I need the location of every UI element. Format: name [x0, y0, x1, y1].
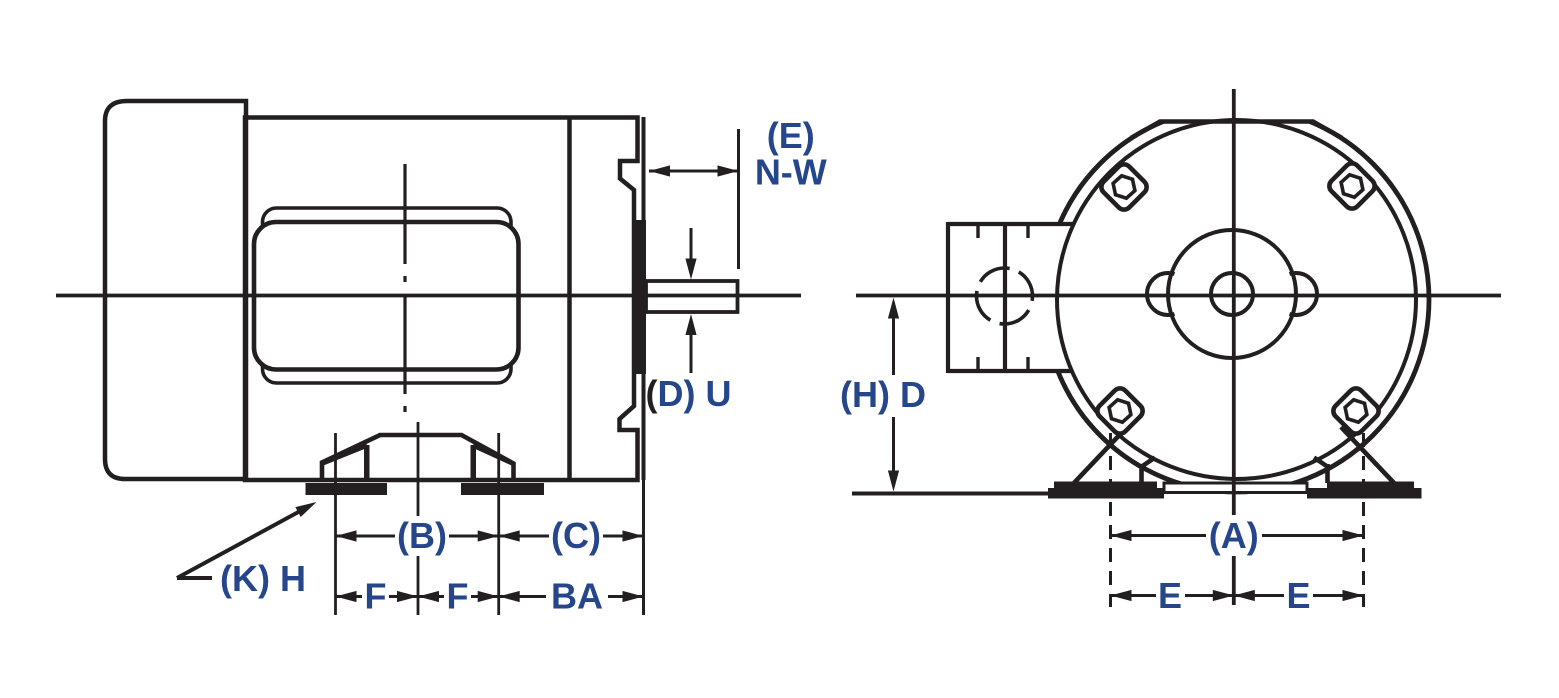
foot slot bar left: [364, 445, 370, 478]
bolt boss top-left: [1098, 161, 1149, 212]
svg-text:(A): (A): [1209, 515, 1259, 556]
dimension (E) N-W: [737, 129, 740, 269]
erase above chord: [1090, 90, 1380, 120]
dimension BA: [499, 595, 644, 598]
svg-text:F: F: [447, 576, 469, 617]
foot inner slant left: [324, 446, 368, 464]
svg-text:BA: BA: [551, 576, 603, 617]
flange gasket bar: [634, 220, 647, 374]
foot bracket trapezoid: [322, 435, 514, 478]
left view horizontal centerline: [56, 294, 801, 298]
bolt boss bottom-right: [1330, 385, 1381, 436]
extension line foot center: [417, 422, 420, 615]
stator back laminations: [263, 208, 512, 383]
svg-text:(H) D: (H) D: [840, 374, 926, 415]
bolt boss top-right: [1326, 160, 1377, 211]
dimension (A): [1111, 534, 1364, 537]
svg-text:(C): (C): [551, 515, 601, 556]
dimension F left: [336, 595, 419, 598]
conduit box fill: [950, 226, 1078, 369]
dimension (C): [499, 535, 644, 538]
foot inner slant right: [473, 446, 513, 464]
left foot black pad: [1048, 482, 1164, 499]
foot slot bar right: [471, 445, 477, 478]
extension line B-left: [334, 433, 337, 615]
dimension (B): [336, 535, 499, 538]
base slab: [1164, 483, 1307, 493]
svg-text:(K) H: (K) H: [220, 558, 306, 599]
rim extension line: [642, 480, 645, 615]
motor body outline: [245, 118, 638, 481]
right foot gusset: [1341, 427, 1395, 484]
leader arrow (K) H: [177, 576, 212, 580]
extension dashed right: [1362, 433, 1365, 607]
conduit box outline: [948, 222, 1075, 226]
svg-text:(B): (B): [397, 515, 447, 556]
dimension E right: [1234, 594, 1364, 597]
right view horizontal centerline: [856, 294, 1501, 298]
knockout dashed circle: [977, 268, 1033, 324]
svg-text:E: E: [1286, 575, 1310, 616]
shaft circle: [1211, 273, 1253, 315]
vertical centerline: [1232, 89, 1236, 605]
dimension (H) D: [892, 303, 895, 375]
right foot black pad: [1307, 482, 1422, 499]
bolt boss bottom-left: [1094, 385, 1145, 436]
dimension F right: [418, 595, 499, 598]
dimension E left: [1111, 594, 1234, 597]
flat top chord and chamfers: [1131, 122, 1342, 139]
svg-text:(D) U: (D) U: [646, 373, 732, 414]
dimension (D) U arrows: [690, 228, 693, 262]
svg-text:F: F: [365, 576, 387, 617]
conduit box ticks: [976, 224, 979, 238]
central hub boss: [1168, 230, 1296, 358]
face rim line: [642, 117, 646, 480]
stator vertical centerline: [403, 164, 406, 419]
outer shell circle: [1044, 107, 1429, 492]
shaft: [646, 281, 738, 312]
extension line B-right: [497, 433, 500, 615]
conduit box divider: [1003, 224, 1007, 371]
left foot pad: [306, 483, 388, 495]
ground baseline: [852, 492, 1050, 496]
stator frame front: [254, 222, 519, 370]
svg-text:(E): (E): [767, 115, 815, 156]
svg-text:E: E: [1158, 575, 1182, 616]
inner circle: [1057, 120, 1416, 479]
end bracket line: [567, 118, 572, 481]
rear end cap: [105, 101, 246, 479]
extension dashed left: [1109, 433, 1112, 607]
right foot pad: [461, 483, 544, 495]
svg-text:N-W: N-W: [755, 152, 827, 193]
left foot gusset: [1073, 427, 1127, 484]
